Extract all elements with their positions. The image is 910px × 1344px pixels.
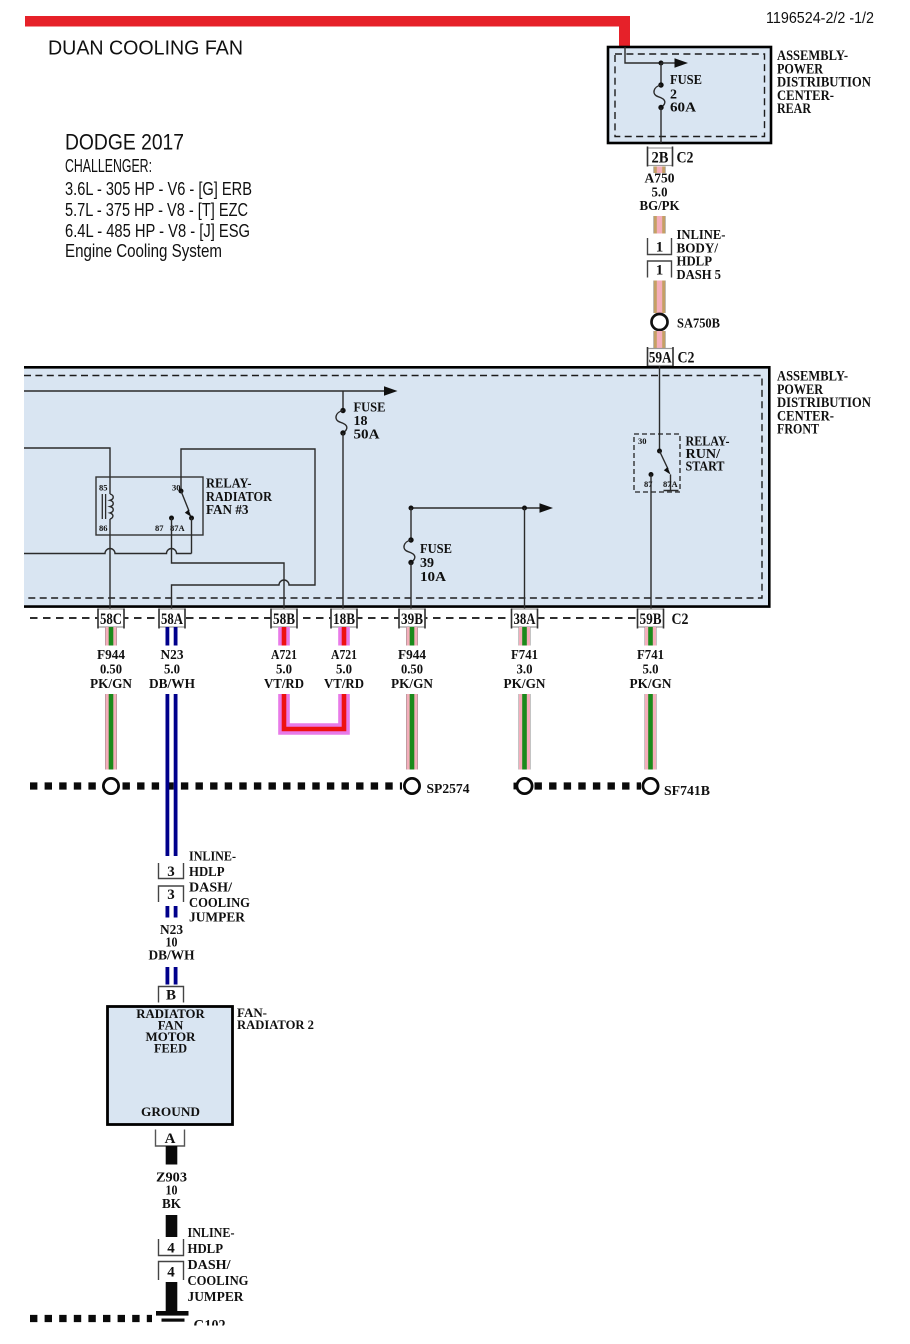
label: assembly power distribution center rear xyxy=(777,48,871,117)
ground bus dotted line xyxy=(30,1315,152,1322)
wire Z903 BK stub xyxy=(166,1146,178,1165)
box: assembly power distribution center front xyxy=(24,367,769,606)
svg-text:3: 3 xyxy=(167,887,175,903)
inline connector pin 4 upper xyxy=(159,1239,184,1256)
label wire N23 5.0 DB/WH xyxy=(149,647,196,691)
inline connector pin 1 lower xyxy=(648,261,672,278)
svg-text:DASH/: DASH/ xyxy=(188,1258,232,1273)
inline connector pin 4 lower xyxy=(159,1262,184,1281)
svg-text:PK/GN: PK/GN xyxy=(504,676,546,691)
wire F944 PK/GN to splice xyxy=(105,694,117,770)
svg-text:60A: 60A xyxy=(670,101,697,116)
box radiator fan motor feed xyxy=(108,1007,233,1125)
svg-text:START: START xyxy=(686,460,726,475)
svg-text:A: A xyxy=(165,1131,176,1147)
wire F944 PK/GN to splice SP2574 xyxy=(406,694,418,770)
svg-text:FAN #3: FAN #3 xyxy=(206,502,249,517)
svg-text:Engine Cooling System: Engine Cooling System xyxy=(65,240,222,261)
splice SA750B xyxy=(652,314,668,330)
svg-text:DASH 5: DASH 5 xyxy=(677,268,722,283)
svg-text:58A: 58A xyxy=(161,611,184,628)
splice node at 38A wire xyxy=(517,778,532,793)
label fan-radiator 2 xyxy=(237,1005,314,1032)
svg-text:CHALLENGER:: CHALLENGER: xyxy=(65,155,152,176)
svg-text:F944: F944 xyxy=(97,647,125,662)
svg-text:50A: 50A xyxy=(354,428,381,443)
svg-text:BG/PK: BG/PK xyxy=(640,198,680,213)
connector label 18B xyxy=(331,609,357,629)
node junction at fuse 2 feed xyxy=(659,61,664,66)
svg-text:5.0: 5.0 xyxy=(164,662,180,677)
svg-text:F741: F741 xyxy=(511,647,538,662)
label fuse 39 xyxy=(420,542,452,585)
connector 59A C2 xyxy=(648,347,695,367)
svg-text:DUAN COOLING FAN: DUAN COOLING FAN xyxy=(48,37,243,60)
wire coil feed to relay radiator fan 3 xyxy=(24,448,110,494)
relay run/start pin 87 node xyxy=(649,472,654,477)
relay box radiator fan 3 xyxy=(96,477,203,535)
label wire Z903 10 BK xyxy=(156,1170,187,1212)
label inline hdlp dash cooling jumper (lower) xyxy=(188,1226,249,1305)
svg-text:REAR: REAR xyxy=(777,101,811,117)
svg-text:DB/WH: DB/WH xyxy=(149,676,196,691)
label wire F741 3.0 PK/GN xyxy=(504,647,546,691)
svg-text:F741: F741 xyxy=(637,647,664,662)
wire coil to 58C xyxy=(109,519,111,610)
svg-text:59B: 59B xyxy=(640,611,662,628)
svg-text:RADIATOR 2: RADIATOR 2 xyxy=(237,1017,314,1032)
wire F741 PK/GN stub below 59B xyxy=(645,627,657,646)
connector 2B C2 xyxy=(648,147,694,167)
wire Z903 BK segment to ground xyxy=(166,1282,178,1312)
wire to 38A xyxy=(524,508,526,610)
svg-text:N23: N23 xyxy=(161,647,184,662)
splice bus dotted line segment 2 xyxy=(123,782,403,789)
svg-text:0.50: 0.50 xyxy=(401,662,423,677)
relay run/start 87A bracket xyxy=(664,475,679,491)
svg-text:FUSE: FUSE xyxy=(670,73,702,88)
wire F741 PK/GN to splice SF741B xyxy=(645,694,657,770)
wire bus with arrow inside front PDC xyxy=(24,390,384,392)
relay pin 87A node xyxy=(189,516,194,521)
wire Z903 BK segment xyxy=(166,1215,178,1237)
svg-text:PK/GN: PK/GN xyxy=(391,676,433,691)
wire fuse 39 to 39B xyxy=(410,563,412,611)
fuse F2 60A xyxy=(654,63,665,110)
wire left exit with hops xyxy=(24,549,192,554)
splice bus dotted line segment 3 xyxy=(535,782,642,789)
svg-text:4: 4 xyxy=(167,1241,175,1257)
wire A721 VT/RD stub below 58B xyxy=(278,627,290,646)
relay run/start switch arm xyxy=(660,451,669,469)
node junction 38A branch xyxy=(522,506,527,511)
fuse F39 10A xyxy=(404,508,415,565)
svg-text:DASH/: DASH/ xyxy=(189,880,233,895)
svg-text:FEED: FEED xyxy=(154,1041,187,1056)
svg-text:3.6L - 305 HP - V6 - [G] ERB: 3.6L - 305 HP - V6 - [G] ERB xyxy=(65,178,252,199)
wire fuse 18 to 18B xyxy=(342,433,344,610)
svg-text:HDLP: HDLP xyxy=(188,1242,224,1257)
svg-text:1: 1 xyxy=(656,263,664,279)
label wire F944 0.50 PK/GN (58C) xyxy=(90,647,132,691)
relay pin 87 node xyxy=(169,516,174,521)
box: assembly power distribution center rear xyxy=(608,47,771,143)
wire A750 segment 2 xyxy=(653,281,665,314)
label wire A721 5.0 VT/RD (58B) xyxy=(264,647,304,691)
wire inside rear PDC from red bus xyxy=(625,47,661,63)
wire F944 PK/GN stub below 58C xyxy=(105,627,117,646)
svg-text:C2: C2 xyxy=(677,150,694,167)
wire fuse 2 output to 2B xyxy=(660,108,662,144)
svg-text:FRONT: FRONT xyxy=(777,422,819,438)
svg-text:JUMPER: JUMPER xyxy=(189,911,246,926)
svg-text:86: 86 xyxy=(99,523,108,533)
svg-text:38A: 38A xyxy=(514,611,537,628)
svg-text:SP2574: SP2574 xyxy=(427,782,470,797)
svg-text:87: 87 xyxy=(644,479,653,489)
wire F741 PK/GN to splice xyxy=(519,694,531,770)
splice SF741B xyxy=(643,778,658,793)
svg-text:VT/RD: VT/RD xyxy=(324,676,364,691)
svg-text:6.4L - 485 HP - V8 - [J] ESG: 6.4L - 485 HP - V8 - [J] ESG xyxy=(65,220,250,241)
splice SP2574 xyxy=(404,778,419,793)
wire N23 DB/WH long segment xyxy=(166,694,178,856)
svg-text:GROUND: GROUND xyxy=(141,1104,200,1119)
svg-text:87A: 87A xyxy=(663,479,679,489)
svg-text:85: 85 xyxy=(99,483,108,493)
svg-text:BK: BK xyxy=(162,1196,182,1211)
wire A721 U jumper 58B to 18B xyxy=(284,694,344,729)
label wire F741 5.0 PK/GN xyxy=(630,647,672,691)
svg-text:0.50: 0.50 xyxy=(100,662,122,677)
connector label 59B xyxy=(638,609,664,629)
svg-text:FUSE: FUSE xyxy=(420,542,452,557)
label relay run/start xyxy=(686,435,730,475)
inline connector pin 3 upper xyxy=(159,863,184,879)
svg-text:F944: F944 xyxy=(398,647,426,662)
label wire A750 5.0 BG/PK xyxy=(640,171,680,214)
page bottom crop mask xyxy=(0,1326,910,1344)
ground symbol G102 bar 1 xyxy=(156,1311,189,1316)
relay coil (radiator fan 3) xyxy=(102,494,113,519)
inline connector pin 1 upper xyxy=(648,238,672,255)
fuse F18 50A xyxy=(336,391,347,436)
wire run/start 87 to 59B xyxy=(650,475,652,611)
wire F944 PK/GN stub below 39B xyxy=(406,627,418,646)
connector label 38A xyxy=(512,609,538,629)
wire arrow to other circuits xyxy=(661,62,676,64)
svg-text:5.7L - 375 HP - V8 - [T] EZC: 5.7L - 375 HP - V8 - [T] EZC xyxy=(65,199,248,220)
svg-text:JUMPER: JUMPER xyxy=(188,1290,245,1305)
connector B (fan radiator 2) xyxy=(159,987,184,1003)
svg-text:A750: A750 xyxy=(645,171,675,186)
svg-text:SA750B: SA750B xyxy=(677,317,720,332)
label inline hdlp dash cooling jumper (upper) xyxy=(189,850,250,926)
svg-text:B: B xyxy=(166,988,176,1004)
svg-text:DODGE 2017: DODGE 2017 xyxy=(65,130,184,155)
connector A (fan radiator 2) xyxy=(156,1130,185,1147)
svg-text:10A: 10A xyxy=(420,570,447,585)
C2 connector row dashed line xyxy=(30,617,665,619)
relay run/start dashed box xyxy=(634,434,680,492)
ground symbol G102 bar 2 xyxy=(162,1319,185,1322)
wire N23 DB/WH stub below 58A xyxy=(166,627,178,646)
label: assembly power distribution center front xyxy=(777,369,871,438)
svg-text:INLINE-: INLINE- xyxy=(188,1226,235,1241)
svg-text:VT/RD: VT/RD xyxy=(264,676,304,691)
connector label 58B xyxy=(271,609,297,629)
inline connector pin 3 lower xyxy=(159,886,184,902)
wire A750 segment xyxy=(653,216,665,234)
wire F741 PK/GN stub below 38A xyxy=(519,627,531,646)
connector label 39B xyxy=(399,609,425,629)
svg-text:C2: C2 xyxy=(678,350,695,367)
label wire F944 0.50 PK/GN (39B) xyxy=(391,647,433,691)
wire 39B feed with arrow xyxy=(411,507,540,509)
splice bus tiny dash before 38A xyxy=(514,783,518,790)
wire A750 BG/PK stub below 2B xyxy=(653,167,665,174)
splice bus dotted line segment 1 xyxy=(30,782,103,789)
svg-text:39B: 39B xyxy=(401,611,423,628)
label fuse 2 xyxy=(670,73,702,116)
label wire A721 5.0 VT/RD (18B) xyxy=(324,647,364,691)
svg-text:C2: C2 xyxy=(672,611,689,628)
wire 30 loop to 58A xyxy=(172,449,316,610)
svg-text:58B: 58B xyxy=(273,611,295,628)
svg-text:4: 4 xyxy=(167,1265,175,1281)
svg-text:59A: 59A xyxy=(649,350,673,367)
label fuse 18 xyxy=(354,401,386,443)
svg-text:5.0: 5.0 xyxy=(276,662,292,677)
svg-text:A721: A721 xyxy=(331,647,357,662)
splice node at 58C wire xyxy=(103,778,118,793)
wire A750 segment 3 xyxy=(653,331,665,348)
svg-text:COOLING: COOLING xyxy=(189,896,250,911)
label wire N23 10 DB/WH xyxy=(149,922,196,963)
connector label 58C xyxy=(98,609,124,629)
svg-text:18B: 18B xyxy=(333,611,355,628)
svg-text:3.0: 3.0 xyxy=(517,662,533,677)
label inline body/hdlp dash 5 xyxy=(677,228,726,283)
svg-text:INLINE-: INLINE- xyxy=(189,850,236,865)
relay 30 pin and switch arm xyxy=(180,477,182,491)
svg-text:30: 30 xyxy=(638,436,647,446)
wire 87 to 58B xyxy=(172,518,285,610)
svg-text:1196524-2/2 -1/2: 1196524-2/2 -1/2 xyxy=(766,10,874,27)
svg-text:1: 1 xyxy=(656,240,664,256)
svg-text:PK/GN: PK/GN xyxy=(90,676,132,691)
svg-text:87: 87 xyxy=(155,523,164,533)
wire 59A into relay run/start pin 30 xyxy=(659,366,661,451)
svg-text:58C: 58C xyxy=(100,611,122,628)
svg-text:SF741B: SF741B xyxy=(664,784,710,799)
wire N23 segment to B xyxy=(166,967,178,985)
label relay radiator fan 3 xyxy=(206,476,272,518)
relay run/start pin labels xyxy=(638,436,679,489)
svg-text:COOLING: COOLING xyxy=(188,1274,249,1289)
svg-text:39: 39 xyxy=(420,556,434,571)
svg-text:5.0: 5.0 xyxy=(336,662,352,677)
svg-text:A721: A721 xyxy=(271,647,297,662)
red power bus wire (hot at all times) xyxy=(25,16,630,47)
wire A721 VT/RD stub below 18B xyxy=(338,627,350,646)
svg-text:5.0: 5.0 xyxy=(643,662,659,677)
wire 87A down xyxy=(191,518,193,554)
svg-text:PK/GN: PK/GN xyxy=(630,676,672,691)
svg-text:2B: 2B xyxy=(652,150,669,167)
svg-text:87A: 87A xyxy=(170,523,186,533)
svg-text:3: 3 xyxy=(167,864,175,880)
connector label 58A xyxy=(159,609,185,629)
svg-text:DB/WH: DB/WH xyxy=(149,948,196,963)
svg-text:HDLP: HDLP xyxy=(189,865,225,880)
wire N23 short stub below connector xyxy=(166,906,178,918)
relay pin labels xyxy=(99,483,186,534)
